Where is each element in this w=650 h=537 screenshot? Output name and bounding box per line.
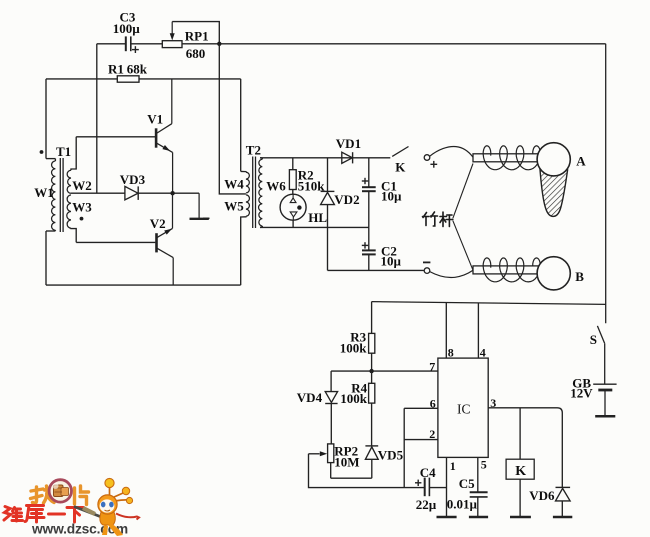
- wire pin 6: [404, 407, 438, 409]
- wire pin 4: [477, 303, 479, 358]
- wire pin 1 to ground: [446, 457, 448, 516]
- lamp HL: [280, 194, 306, 220]
- pole A bar: [473, 154, 541, 162]
- svg-text:0.01µ: 0.01µ: [447, 496, 478, 511]
- svg-text:22µ: 22µ: [416, 497, 437, 512]
- svg-text:10M: 10M: [334, 454, 359, 469]
- wire - terminal to pole B: [430, 270, 473, 277]
- pole B bar: [473, 266, 541, 274]
- node R3/R4/pin7: [369, 369, 373, 373]
- wire supply to T2 center tap: [219, 44, 246, 194]
- svg-text:VD1: VD1: [336, 136, 361, 151]
- electrode A ball: [537, 143, 570, 176]
- transistor V2: [155, 233, 158, 252]
- phase dot W3: [80, 217, 84, 221]
- svg-text:S: S: [590, 332, 597, 347]
- svg-text:100µ: 100µ: [113, 21, 141, 36]
- svg-text:C4: C4: [420, 465, 436, 480]
- wire right supply bus: [605, 44, 607, 323]
- resistor R2 510k: [292, 158, 294, 170]
- svg-text:A: A: [576, 154, 586, 169]
- svg-text:680: 680: [186, 46, 206, 61]
- wire pin 7: [331, 370, 438, 372]
- svg-text:100k: 100k: [340, 340, 368, 355]
- wire pin 5: [477, 457, 479, 492]
- wire W6 bottom rail: [260, 226, 369, 228]
- svg-text:K: K: [395, 159, 406, 174]
- ground (pin 1): [437, 516, 457, 519]
- transformer T1 winding W3: [67, 195, 71, 228]
- bracket lines to poles: [453, 164, 473, 219]
- potentiometer RP1 680: [162, 41, 182, 48]
- label 竹杆 bamboo pole: [423, 212, 453, 227]
- transformer T2 winding W4: [240, 79, 242, 171]
- svg-text:2: 2: [429, 427, 435, 441]
- op-amp/timer IC: [438, 358, 488, 457]
- wire C3 left plate down to VD3 node: [96, 44, 98, 193]
- svg-text:HL: HL: [308, 210, 327, 225]
- node V1/V2 emitter junction: [170, 191, 174, 195]
- phase dot W1: [40, 150, 44, 154]
- wire W6 top rail: [260, 157, 390, 159]
- transformer T2 winding W5: [246, 195, 250, 216]
- capacitor C2 10µ: [368, 227, 370, 250]
- wire W3 bottom to V2 base: [76, 241, 155, 243]
- svg-text:10µ: 10µ: [381, 189, 402, 204]
- node junction RP1/bus: [217, 42, 221, 46]
- svg-text:V1: V1: [147, 111, 163, 126]
- svg-text:1: 1: [450, 459, 456, 473]
- transformer T1 winding W2: [71, 137, 76, 171]
- svg-text:W1: W1: [34, 185, 54, 200]
- transistor V1: [155, 128, 158, 147]
- wire pin 3: [488, 408, 562, 488]
- wire VD3 to center node: [138, 192, 199, 194]
- electrode B ball: [537, 257, 570, 290]
- svg-text:W2: W2: [72, 178, 92, 193]
- diode VD1: [342, 152, 353, 163]
- diode VD5: [365, 445, 378, 447]
- terminal + output: [424, 155, 430, 161]
- svg-text:4: 4: [480, 346, 486, 360]
- svg-text:100k: 100k: [340, 391, 368, 406]
- svg-text:VD5: VD5: [378, 447, 404, 462]
- relay K: [519, 408, 521, 459]
- svg-text:RP1: RP1: [185, 28, 209, 43]
- svg-text:V2: V2: [150, 216, 166, 231]
- svg-text:10µ: 10µ: [381, 254, 402, 269]
- ground (emitter node): [198, 193, 200, 218]
- transformer T2 winding W6: [260, 158, 262, 159]
- capacitor C5 0.01µ: [470, 491, 488, 493]
- wire pin 8: [445, 303, 447, 359]
- svg-text:12V: 12V: [570, 386, 593, 401]
- transformer T2 core: [252, 157, 254, 229]
- battery GB 12V: [593, 383, 616, 385]
- svg-text:6: 6: [430, 396, 436, 410]
- potentiometer RP2 10M: [328, 444, 334, 463]
- svg-text:T1: T1: [56, 144, 71, 159]
- capacitor C1 10µ: [368, 158, 370, 187]
- wire RP2 wiper to pins 2,6 and C4: [309, 454, 425, 488]
- transformer T1 winding W1: [45, 79, 47, 159]
- switch K: [392, 147, 408, 157]
- svg-text:VD3: VD3: [120, 172, 146, 187]
- wire W2/W3 tap to VD3: [71, 192, 125, 194]
- svg-text:W6: W6: [266, 178, 286, 193]
- ground (VD6): [553, 516, 572, 519]
- wire C3 to RP1: [131, 43, 163, 45]
- svg-text:68k: 68k: [127, 62, 148, 77]
- svg-text:W3: W3: [72, 199, 92, 214]
- resistor R1 68k: [46, 78, 117, 80]
- wire pin 2: [404, 439, 438, 441]
- watermark logo: [4, 478, 139, 536]
- diode VD6: [556, 486, 571, 488]
- svg-text:R1: R1: [108, 62, 124, 77]
- wire supply branch to IC: [372, 302, 606, 305]
- wire bottom rail of oscillator: [46, 284, 241, 286]
- svg-text:T2: T2: [246, 142, 261, 157]
- svg-text:8: 8: [448, 346, 454, 360]
- svg-text:VD6: VD6: [529, 488, 555, 503]
- electrode A hatched cone: [540, 168, 568, 216]
- wire output bottom rail: [328, 269, 425, 271]
- transformer T1 core: [59, 158, 61, 232]
- svg-text:K: K: [515, 464, 526, 479]
- wire W2 top to V1 base: [76, 136, 155, 138]
- wire RP1 wiper feedback: [172, 22, 219, 44]
- svg-text:C5: C5: [459, 476, 475, 491]
- tick mark left of T2: [203, 217, 210, 219]
- svg-text:VD2: VD2: [334, 192, 359, 207]
- diode VD3: [125, 186, 138, 200]
- svg-text:B: B: [575, 269, 584, 284]
- ground (relay K): [510, 516, 531, 519]
- wire + terminal to pole A: [430, 146, 473, 157]
- svg-text:7: 7: [429, 359, 435, 373]
- diode VD4: [330, 371, 332, 392]
- svg-text:W4: W4: [224, 177, 244, 192]
- diode VD2: [327, 158, 329, 192]
- svg-text:IC: IC: [457, 402, 471, 417]
- terminal - output: [424, 268, 430, 274]
- svg-text:VD4: VD4: [297, 390, 323, 405]
- wire top supply bus: [182, 43, 606, 45]
- ground (battery): [595, 415, 615, 418]
- pole B coil wrap: [483, 258, 540, 282]
- switch S: [597, 326, 604, 343]
- resistor R3 100k: [371, 302, 373, 334]
- capacitor C4 22µ: [424, 478, 426, 497]
- resistor R4 100k: [371, 371, 373, 383]
- svg-text:5: 5: [481, 457, 487, 471]
- ground (C5): [469, 516, 488, 519]
- wire RP2/VD5 bottom link: [331, 477, 372, 479]
- wire top from node to C3: [97, 43, 126, 45]
- capacitor C3 100µ: [125, 36, 127, 51]
- pole A coil wrap: [483, 146, 540, 170]
- svg-text:W5: W5: [224, 198, 244, 213]
